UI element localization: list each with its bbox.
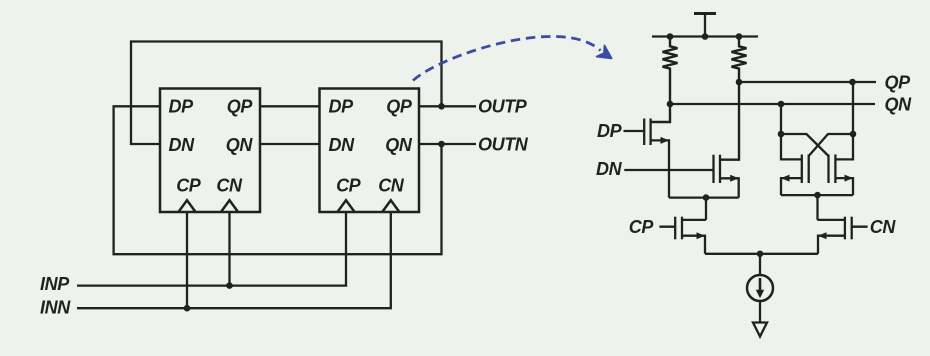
svg-text:CN: CN	[378, 176, 405, 196]
svg-text:QN: QN	[885, 94, 913, 114]
svg-text:CP: CP	[176, 176, 202, 196]
svg-text:QP: QP	[885, 72, 912, 92]
svg-text:INP: INP	[40, 274, 70, 294]
svg-text:QN: QN	[385, 135, 413, 155]
svg-text:OUTP: OUTP	[478, 97, 528, 117]
svg-text:DP: DP	[597, 121, 623, 141]
svg-text:DN: DN	[169, 135, 196, 155]
svg-text:CP: CP	[629, 217, 655, 237]
svg-text:CN: CN	[216, 176, 243, 196]
svg-text:DP: DP	[329, 97, 355, 117]
svg-text:DN: DN	[329, 135, 356, 155]
svg-text:QP: QP	[386, 97, 413, 117]
svg-text:CN: CN	[870, 217, 897, 237]
svg-text:OUTN: OUTN	[478, 134, 529, 154]
svg-text:DN: DN	[596, 159, 623, 179]
svg-text:QN: QN	[226, 135, 254, 155]
svg-text:DP: DP	[169, 97, 195, 117]
svg-text:CP: CP	[336, 176, 362, 196]
svg-text:INN: INN	[40, 297, 71, 317]
svg-text:QP: QP	[227, 97, 254, 117]
